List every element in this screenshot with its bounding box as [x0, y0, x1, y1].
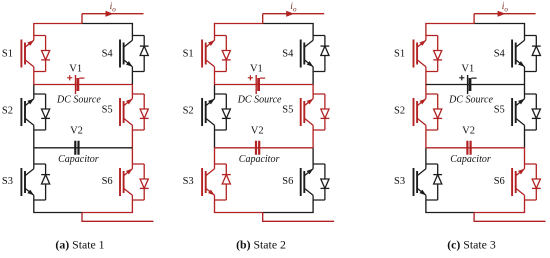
wire: node A to S2 collector (state 2): [214, 85, 216, 95]
wire: V1 source link node A to node C (state 3): [426, 84, 525, 86]
svg-text:io: io: [502, 2, 509, 13]
wire: S3 emitter to bottom rail (state 1): [34, 200, 82, 213]
svg-text:S6: S6: [282, 176, 293, 187]
wire: V2 capacitor link node B to node D (state 1): [34, 147, 133, 149]
svg-text:S5: S5: [102, 105, 113, 116]
wire: S4 emitter to node C (state 3): [524, 72, 526, 85]
svg-text:DC Source: DC Source: [56, 95, 101, 106]
transistor S1 (IGBT with diode, state 3): [414, 36, 443, 72]
arrowhead i_o (state 3): [498, 11, 506, 17]
svg-text:(b) State 2: (b) State 2: [236, 237, 286, 251]
svg-text:S3: S3: [394, 176, 405, 187]
wire: S6 emitter to bottom rail (state 1): [82, 200, 132, 213]
transistor S4 (IGBT with diode, state 1): [120, 36, 149, 72]
transistor S3 (IGBT with diode, state 1): [21, 164, 50, 200]
svg-text:V2: V2: [251, 126, 264, 137]
transistor S6 (IGBT with diode, state 2): [301, 164, 330, 200]
transistor S5 (IGBT with diode, state 3): [512, 94, 541, 130]
wire: top rail right + S4 collector (state 2): [263, 24, 313, 36]
wire: top rail right + S4 collector (state 3): [474, 24, 524, 36]
svg-text:V2: V2: [462, 126, 475, 137]
svg-text:DC Source: DC Source: [237, 95, 282, 106]
wire: output current line (state 2): [263, 13, 325, 15]
wire: S5 emitter to node D (state 3): [524, 130, 526, 148]
transistor S4 (IGBT with diode, state 2): [301, 36, 330, 72]
svg-text:V1: V1: [461, 64, 474, 75]
transistor S3 (IGBT with diode, state 2): [202, 164, 231, 200]
wire: S2 emitter to node B (state 2): [214, 130, 216, 148]
capacitor V2 (state 3): [467, 141, 470, 155]
wire: node D to S6 collector (state 3): [524, 148, 526, 164]
capacitor V2 (state 1): [75, 141, 78, 155]
wire: node A to S2 collector (state 1): [33, 85, 35, 95]
svg-text:Capacitor: Capacitor: [239, 154, 280, 165]
wire: top rail left + S1 collector (state 1): [34, 24, 82, 36]
wire: node B to S3 collector (state 1): [33, 148, 35, 164]
transistor S1 (IGBT with diode, state 1): [21, 36, 50, 72]
wire: top rail right + S4 collector (state 1): [82, 24, 132, 36]
wire: S2 emitter to node B (state 3): [425, 130, 427, 148]
wire: node B to S3 collector (state 3): [425, 148, 427, 164]
wire: output stub (state 2): [262, 14, 264, 24]
battery V1 DC source (state 3): [459, 75, 476, 94]
wire: S5 emitter to node D (state 1): [131, 130, 133, 148]
wire: S4 emitter to node C (state 2): [312, 72, 314, 85]
wire: S6 emitter to bottom rail (state 2): [263, 200, 313, 213]
wire: S3 emitter to bottom rail (state 3): [426, 200, 474, 213]
wire: node A to S2 collector (state 3): [425, 85, 427, 95]
svg-text:S2: S2: [394, 106, 405, 117]
transistor S2 (IGBT with diode, state 2): [202, 94, 231, 130]
transistor S5 (IGBT with diode, state 1): [120, 94, 149, 130]
svg-text:Capacitor: Capacitor: [58, 154, 99, 165]
wire: output return (state 3): [474, 213, 545, 222]
arrowhead i_o (state 1): [106, 11, 114, 17]
svg-text:io: io: [110, 2, 117, 13]
capacitor V2 (state 2): [256, 141, 259, 155]
svg-text:S4: S4: [102, 48, 114, 59]
transistor S3 (IGBT with diode, state 3): [414, 164, 443, 200]
svg-text:S4: S4: [494, 48, 506, 59]
svg-text:S2: S2: [183, 106, 194, 117]
svg-text:S6: S6: [102, 176, 113, 187]
svg-text:DC Source: DC Source: [448, 95, 493, 106]
svg-text:S3: S3: [2, 176, 13, 187]
battery V1 DC source (state 2): [248, 75, 265, 94]
svg-text:V1: V1: [250, 64, 263, 75]
wire: V1 source link node A to node C (state 1): [34, 84, 133, 86]
wire: S4 emitter to node C (state 1): [131, 72, 133, 85]
wire: S5 emitter to node D (state 2): [312, 130, 314, 148]
transistor S1 (IGBT with diode, state 2): [202, 36, 231, 72]
svg-text:V2: V2: [70, 126, 83, 137]
wire: S1 emitter to node A (state 1): [33, 72, 35, 85]
wire: output return (state 2): [263, 213, 334, 222]
wire: top rail left + S1 collector (state 3): [426, 24, 474, 36]
transistor S2 (IGBT with diode, state 1): [21, 94, 50, 130]
svg-text:S5: S5: [282, 105, 293, 116]
wire: S6 emitter to bottom rail (state 3): [474, 200, 524, 213]
wire: output current line (state 3): [474, 13, 535, 15]
transistor S4 (IGBT with diode, state 3): [512, 36, 541, 72]
arrowhead i_o (state 2): [286, 11, 294, 17]
svg-text:S3: S3: [183, 176, 194, 187]
wire: node D to S6 collector (state 1): [131, 148, 133, 164]
wire: S1 emitter to node A (state 3): [425, 72, 427, 85]
wire: S1 emitter to node A (state 2): [214, 72, 216, 85]
transistor S6 (IGBT with diode, state 3): [512, 164, 541, 200]
wire: S3 emitter to bottom rail (state 2): [215, 200, 263, 213]
wire: output stub (state 3): [473, 14, 475, 24]
wire: top rail left + S1 collector (state 2): [215, 24, 263, 36]
battery V1 DC source (state 1): [67, 75, 84, 94]
wire: node D to S6 collector (state 2): [312, 148, 314, 164]
wire: node B to S3 collector (state 2): [214, 148, 216, 164]
svg-text:S5: S5: [494, 105, 505, 116]
wire: V2 capacitor link node B to node D (state 3): [426, 147, 525, 149]
wire: output return (state 1): [82, 213, 153, 222]
svg-text:Capacitor: Capacitor: [450, 154, 491, 165]
wire: S2 emitter to node B (state 1): [33, 130, 35, 148]
wire: V1 source link node A to node C (state 2): [215, 84, 314, 86]
svg-text:V1: V1: [69, 64, 82, 75]
wire: V2 capacitor link node B to node D (state 2): [215, 147, 314, 149]
svg-text:S4: S4: [282, 48, 294, 59]
svg-text:S1: S1: [2, 49, 13, 60]
wire: output current line (state 1): [82, 13, 144, 15]
wire: output stub (state 1): [81, 14, 83, 24]
svg-text:S1: S1: [183, 49, 194, 60]
svg-text:(c) State 3: (c) State 3: [447, 237, 496, 251]
svg-text:S6: S6: [494, 176, 505, 187]
wire: node C to S5 collector (state 2): [312, 85, 314, 95]
transistor S6 (IGBT with diode, state 1): [120, 164, 149, 200]
wire: node C to S5 collector (state 1): [131, 85, 133, 95]
svg-text:io: io: [290, 2, 297, 13]
transistor S2 (IGBT with diode, state 3): [414, 94, 443, 130]
svg-text:(a) State 1: (a) State 1: [55, 237, 104, 251]
svg-text:S1: S1: [394, 49, 405, 60]
svg-text:S2: S2: [2, 106, 13, 117]
wire: node C to S5 collector (state 3): [524, 85, 526, 95]
transistor S5 (IGBT with diode, state 2): [301, 94, 330, 130]
